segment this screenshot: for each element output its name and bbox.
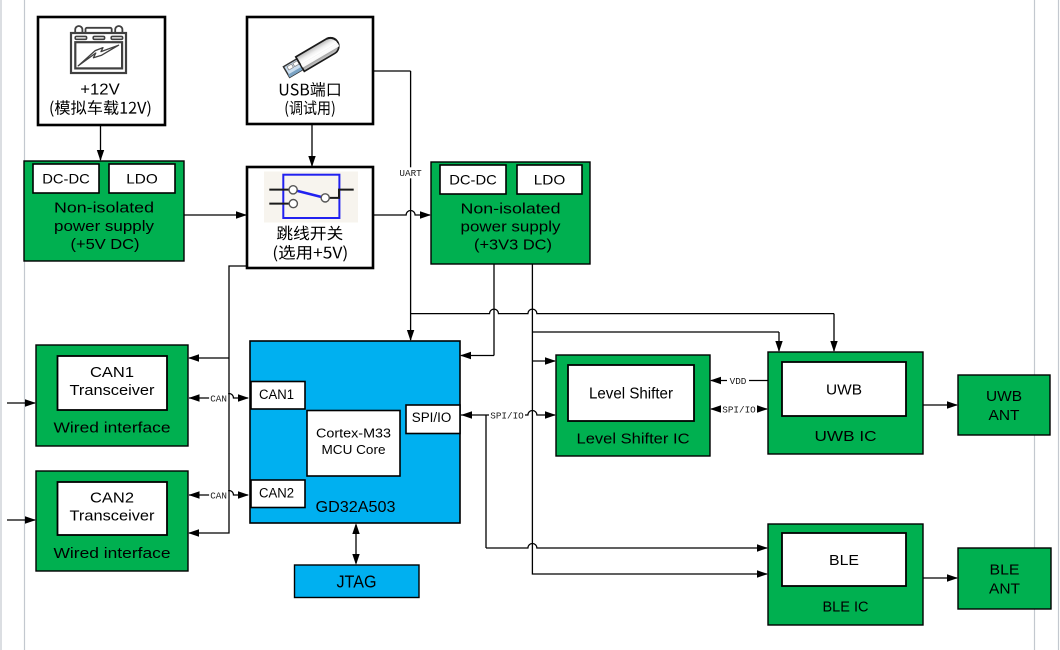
svg-text:Wired interface: Wired interface bbox=[54, 545, 171, 562]
pin box CAN2 bbox=[251, 480, 305, 508]
wire USB to jumper switch bbox=[311, 124, 313, 166]
svg-text:CAN2: CAN2 bbox=[259, 486, 294, 501]
svg-text:BLE IC: BLE IC bbox=[823, 599, 869, 616]
icon jumper switch bbox=[264, 172, 358, 223]
wire SPI/IO Level Shifter to UWB bbox=[711, 408, 767, 410]
wire CAN1 bus bbox=[189, 394, 248, 399]
text (调试用) bbox=[286, 100, 335, 117]
wire BLE IC to BLE ANT bbox=[923, 577, 957, 579]
svg-text:UWB: UWB bbox=[826, 382, 862, 399]
wire battery to +5V supply bbox=[100, 125, 102, 160]
block BLE ANT bbox=[958, 548, 1051, 609]
sub-block CAN2 Transceiver inner bbox=[58, 482, 168, 535]
pin box SPI/IO bbox=[406, 405, 460, 434]
page guide line right edge bbox=[1058, 0, 1060, 650]
svg-text:(+3V3 DC): (+3V3 DC) bbox=[474, 237, 552, 254]
label CAN (CAN2) bbox=[209, 490, 228, 501]
svg-text:VDD: VDD bbox=[730, 376, 747, 387]
block CAN1 transceiver bbox=[36, 345, 188, 446]
sub-block Cortex-M33 MCU Core bbox=[307, 411, 400, 477]
svg-text:power supply: power supply bbox=[461, 219, 562, 236]
svg-text:Non-isolated: Non-isolated bbox=[54, 200, 154, 217]
sub-block LDO (+5V) bbox=[109, 164, 175, 193]
svg-text:BLE: BLE bbox=[829, 552, 859, 569]
wire CAN2 bus bbox=[189, 491, 248, 496]
svg-text:(+5V DC): (+5V DC) bbox=[71, 236, 140, 253]
label CAN (CAN1) bbox=[209, 393, 228, 404]
text USB端口 bbox=[280, 82, 340, 97]
block UWB ANT bbox=[958, 375, 1050, 435]
wire external CAN1 input bbox=[7, 402, 35, 404]
block +5V non-isolated power supply bbox=[24, 161, 184, 261]
svg-text:power supply: power supply bbox=[54, 218, 155, 235]
wire VDD UWB to Level Shifter bbox=[711, 380, 768, 382]
pin box CAN1 bbox=[251, 382, 305, 410]
wire SPI/IO MCU to Level Shifter bbox=[461, 411, 555, 416]
text (选用+5V) bbox=[274, 245, 347, 262]
svg-text:SPI/IO: SPI/IO bbox=[412, 410, 452, 425]
svg-text:Transceiver: Transceiver bbox=[70, 382, 155, 399]
wire branch to Level Shifter bbox=[532, 360, 555, 362]
sub-block UWB inner bbox=[782, 362, 906, 416]
wire +5V supply to jumper switch bbox=[184, 214, 246, 216]
svg-text:CAN2: CAN2 bbox=[90, 490, 134, 507]
svg-text:Wired interface: Wired interface bbox=[54, 420, 171, 437]
label SPI/IO (MCU side) bbox=[489, 410, 525, 421]
svg-text:JTAG: JTAG bbox=[337, 572, 377, 592]
label SPI/IO (UWB side) bbox=[721, 404, 757, 415]
block Level Shifter IC bbox=[556, 355, 710, 456]
sub-block CAN1 Transceiver inner bbox=[58, 356, 168, 410]
svg-text:UART: UART bbox=[399, 168, 422, 179]
text (模拟车载12V) bbox=[50, 100, 150, 117]
sub-block LDO (+3V3) bbox=[517, 165, 582, 194]
wire UWB IC to UWB ANT bbox=[923, 404, 957, 406]
svg-text:Level Shifter: Level Shifter bbox=[589, 386, 673, 403]
block battery +12V bbox=[38, 17, 165, 125]
svg-text:ANT: ANT bbox=[989, 407, 1020, 424]
wire branch to CAN1 transceiver bbox=[189, 357, 229, 359]
block JTAG bbox=[295, 565, 420, 598]
svg-text:SPI/IO: SPI/IO bbox=[722, 404, 756, 415]
wire +3V3 DC-DC output to MCU bbox=[493, 264, 495, 356]
wire jumper switch to +3V3 supply bbox=[373, 211, 430, 216]
block jumper switch bbox=[247, 167, 373, 268]
sub-block DC-DC (+3V3) bbox=[440, 165, 506, 194]
wire power rail to UWB IC (1) bbox=[411, 309, 834, 314]
block UWB IC bbox=[768, 352, 923, 454]
block MCU GD32A503 bbox=[250, 341, 460, 523]
text 跳线开关 bbox=[277, 226, 343, 241]
sub-block Level Shifter inner bbox=[568, 365, 694, 421]
svg-text:GD32A503: GD32A503 bbox=[316, 499, 396, 516]
svg-text:SPI/IO: SPI/IO bbox=[490, 410, 524, 421]
label VDD bbox=[727, 375, 749, 386]
svg-text:+12V: +12V bbox=[80, 82, 120, 99]
wire SPI/IO branch to BLE IC bbox=[485, 415, 487, 548]
wire UART: USB to MCU bbox=[373, 70, 411, 72]
wire jumper +5V to CAN transceivers bbox=[189, 266, 247, 533]
label UART bbox=[398, 167, 424, 178]
wire MCU to JTAG bbox=[355, 525, 357, 563]
page guide line left margin bbox=[24, 0, 26, 650]
page guide line left edge bbox=[0, 0, 2, 650]
svg-text:Cortex-M33: Cortex-M33 bbox=[316, 426, 391, 440]
svg-text:DC-DC: DC-DC bbox=[42, 171, 90, 187]
svg-text:BLE: BLE bbox=[990, 562, 1020, 579]
block BLE IC bbox=[768, 524, 923, 625]
svg-text:LDO: LDO bbox=[126, 171, 158, 187]
block +3V3 non-isolated power supply bbox=[431, 162, 590, 264]
svg-text:Level Shifter IC: Level Shifter IC bbox=[577, 431, 690, 448]
wire +3V3 LDO output to BLE IC bbox=[532, 264, 767, 574]
svg-text:ANT: ANT bbox=[989, 581, 1020, 598]
sub-block DC-DC (+5V) bbox=[33, 164, 99, 193]
wire power rail to UWB IC (2) bbox=[532, 331, 779, 333]
svg-text:MCU Core: MCU Core bbox=[322, 443, 386, 457]
svg-text:UWB IC: UWB IC bbox=[815, 428, 877, 445]
svg-text:CAN: CAN bbox=[210, 490, 227, 501]
svg-text:UWB: UWB bbox=[986, 388, 1022, 405]
svg-text:CAN: CAN bbox=[210, 393, 227, 404]
svg-text:CAN1: CAN1 bbox=[259, 387, 294, 402]
page guide line right margin bbox=[1034, 0, 1036, 650]
svg-text:Non-isolated: Non-isolated bbox=[461, 201, 561, 218]
block USB port bbox=[247, 17, 373, 124]
block CAN2 transceiver bbox=[36, 471, 188, 571]
svg-text:Transceiver: Transceiver bbox=[70, 508, 155, 525]
svg-text:LDO: LDO bbox=[534, 172, 566, 188]
wire external CAN2 input bbox=[7, 519, 35, 521]
icon car battery bbox=[71, 26, 126, 73]
svg-text:CAN1: CAN1 bbox=[90, 364, 134, 381]
svg-text:DC-DC: DC-DC bbox=[449, 172, 497, 188]
sub-block BLE inner bbox=[782, 533, 906, 586]
